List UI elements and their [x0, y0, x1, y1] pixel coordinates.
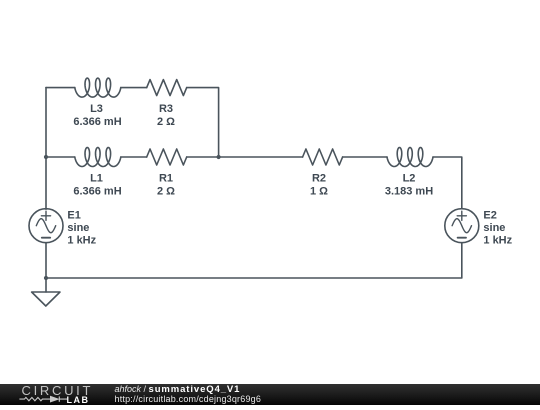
wire between L1 and R1: [121, 156, 147, 158]
footer bar: [0, 384, 540, 405]
wire R1 to R2 through junction: [187, 156, 303, 158]
svg-text:6.366 mH: 6.366 mH: [73, 185, 121, 197]
svg-text:E2: E2: [483, 209, 496, 221]
node: left middle junction: [44, 155, 48, 159]
footer text: [115, 385, 262, 404]
logo wire with resistor and diode glyph: [19, 396, 67, 401]
inductor L2: [387, 148, 433, 167]
svg-text:1 Ω: 1 Ω: [310, 185, 328, 197]
svg-text:L2: L2: [403, 172, 416, 184]
svg-text:3.183 mH: 3.183 mH: [385, 185, 433, 197]
node: middle rail junction: [217, 155, 221, 159]
svg-text:1 kHz: 1 kHz: [483, 234, 512, 246]
wire top rail left segment: [46, 87, 75, 89]
svg-text:2 Ω: 2 Ω: [157, 116, 175, 128]
svg-text:L3: L3: [90, 103, 103, 115]
inductor L1: [75, 148, 121, 167]
voltage source E2: [445, 209, 479, 243]
svg-text:1 kHz: 1 kHz: [67, 234, 96, 246]
wire left vertical (top rail to E1 top): [45, 88, 47, 210]
wire L2 to top of E2: [433, 157, 462, 209]
wire bottom rail: [46, 243, 462, 278]
svg-text:E1: E1: [67, 209, 80, 221]
svg-text:sine: sine: [483, 222, 505, 234]
svg-text:R1: R1: [159, 172, 173, 184]
ground: [32, 278, 60, 306]
svg-text:2 Ω: 2 Ω: [157, 185, 175, 197]
inductor L3: [75, 78, 121, 97]
wire middle rail left segment: [46, 156, 75, 158]
diode triangle: [50, 396, 58, 402]
svg-text:L1: L1: [90, 172, 103, 184]
wire between L3 and R3: [121, 87, 147, 89]
svg-text:sine: sine: [67, 222, 89, 234]
voltage source E1: [29, 209, 63, 243]
resistor R2: [303, 149, 343, 165]
wire E1 bottom to ground node: [45, 243, 47, 278]
svg-text:6.366 mH: 6.366 mH: [73, 116, 121, 128]
node: ground junction: [44, 276, 48, 280]
wire R3 to top-right corner and down to middle rail: [187, 88, 219, 157]
svg-text:R3: R3: [159, 103, 173, 115]
wire between R2 and L2: [343, 156, 387, 158]
svg-text:R2: R2: [312, 172, 326, 184]
resistor R3: [147, 80, 187, 96]
resistor R1: [147, 149, 187, 165]
CircuitLab logo: [15, 384, 100, 405]
